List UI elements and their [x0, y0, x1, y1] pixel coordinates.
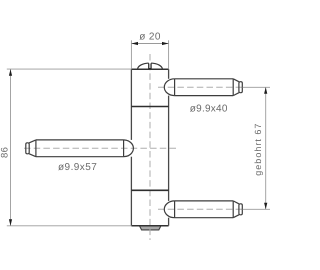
left pin outline: [26, 140, 134, 157]
dimension 86 left: [7, 69, 132, 226]
extension line gebohrt bottom: [243, 208, 271, 210]
dome screw slot: [149, 63, 152, 68]
top pin outline: [164, 79, 242, 96]
arrowhead 86 top: [9, 69, 12, 76]
dimension line dia20: [131, 43, 168, 45]
svg-text:ø9.9x40: ø9.9x40: [190, 103, 228, 114]
top dome cap fill: [138, 63, 163, 69]
top dome cap outline right arc: [151, 63, 162, 69]
body left edge upper segment: [130, 69, 132, 140]
svg-text:86: 86: [0, 147, 10, 158]
center line bottom pin axis: [158, 208, 244, 210]
body right edge upper segment: [168, 69, 170, 79]
top dome cap outline left arc: [138, 63, 149, 69]
body right edge middle segment: [168, 96, 170, 201]
body left edge lower segment: [130, 157, 132, 226]
hinge body fill: [131, 69, 168, 226]
hinge body outline: [131, 69, 168, 226]
arrowhead dia20 left: [131, 42, 138, 45]
extension line 86 top: [7, 68, 132, 70]
arrowhead dia20 right: [162, 42, 169, 45]
bottom insert plug fill: [139, 226, 161, 230]
svg-text:gebohrt 67: gebohrt 67: [253, 123, 263, 176]
bottom pin outline: [164, 201, 242, 218]
body knuckle division line lower: [131, 189, 168, 191]
dimension line 86: [10, 69, 12, 226]
extension line left of dia20: [130, 40, 132, 69]
body knuckle division line upper: [131, 106, 168, 108]
center line vertical axis: [24, 54, 244, 240]
extension line 86 bottom: [7, 225, 132, 227]
arrowhead 86 bottom: [9, 219, 12, 226]
dimension diameter 20: [131, 40, 168, 69]
dimension line gebohrt: [265, 87, 267, 209]
center line left pin axis: [24, 147, 177, 149]
dimension gebohrt 67 right: [243, 87, 271, 209]
arrowhead gebohrt bottom: [264, 203, 267, 210]
top pin fill: [164, 79, 185, 96]
body top edge: [131, 68, 168, 70]
extension line right of dia20: [168, 40, 170, 69]
svg-text:ø9.9x57: ø9.9x57: [58, 162, 97, 173]
svg-text:ø 20: ø 20: [139, 32, 161, 43]
left pin fill: [114, 140, 134, 157]
arrowhead gebohrt top: [264, 87, 267, 94]
extension line gebohrt top: [243, 86, 271, 88]
bottom pin fill: [164, 201, 185, 218]
center line top pin axis: [158, 86, 244, 88]
body right edge lower segment: [168, 218, 170, 226]
white fills of hinge body and pins: [27, 63, 242, 226]
body bottom edge: [131, 225, 168, 227]
